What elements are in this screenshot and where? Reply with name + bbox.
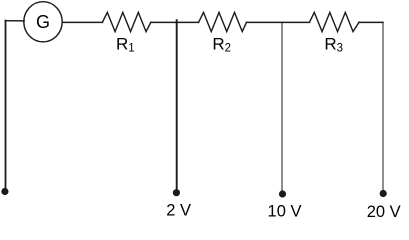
- wire: R3 to top-right corner: [359, 21, 383, 23]
- resistor R3: [309, 12, 359, 31]
- wire: galvanometer to R1: [62, 21, 102, 23]
- svg-text:20 V: 20 V: [367, 203, 401, 221]
- node A junction stub: [176, 20, 178, 22]
- resistor R1: [102, 12, 150, 31]
- terminal dot: 10V: [279, 190, 286, 197]
- terminal dot: left branch: [1, 188, 8, 195]
- wire: 2V vertical branch: [176, 22, 178, 190]
- terminal dot: 2V: [173, 189, 180, 196]
- wire: 20V vertical branch: [382, 22, 384, 190]
- wire: top-left horizontal to galvanometer: [5, 20, 24, 22]
- galvanometer G circle: [24, 2, 62, 42]
- wire: left vertical branch: [5, 21, 7, 189]
- wire: R1 to R2 through node A: [151, 21, 199, 23]
- resistor R2: [199, 12, 247, 31]
- svg-text:G: G: [36, 12, 50, 32]
- wire: 10V vertical branch: [281, 22, 283, 191]
- svg-text:2 V: 2 V: [166, 202, 191, 220]
- terminal dot: 20V: [380, 190, 387, 197]
- svg-text:10 V: 10 V: [268, 203, 302, 221]
- wire: R2 to R3 through node B: [247, 21, 310, 23]
